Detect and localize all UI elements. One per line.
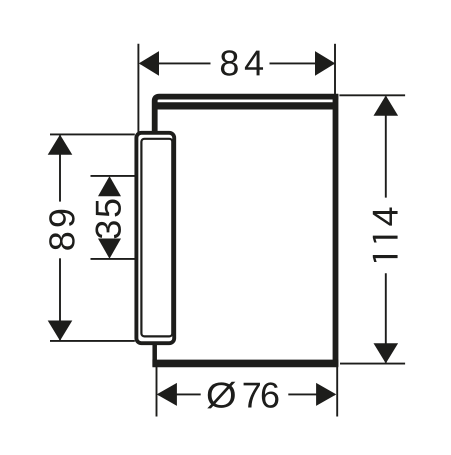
body bottom edge (152, 360, 338, 368)
dimension 89 label (49, 210, 74, 250)
dimension 114 label (373, 208, 398, 262)
wall plate (mounting plate) (136, 133, 174, 343)
dimension 89 extension line top (50, 133, 135, 135)
dimension D76 arrow right (316, 383, 336, 406)
dimension 114 extension line top (339, 94, 405, 96)
dimension D76 arrow left (157, 383, 177, 406)
dimension 35 arrow down (98, 239, 121, 259)
body right edge (333, 94, 339, 367)
dimension 35 extension line top (91, 175, 136, 177)
body outline (cup, side view) (152, 94, 338, 367)
dimension 84 arrow left (139, 51, 159, 76)
dimension 114 arrow down (374, 343, 399, 363)
dimension 89 arrow up (48, 135, 73, 155)
dimension 84 label (221, 50, 263, 75)
body top rim line (155, 97, 339, 133)
lip lower rim line (155, 102, 336, 109)
dimension 35 arrow up (98, 176, 121, 196)
dimension D76 extension line right (336, 366, 338, 417)
dimension 114 extension line bottom (340, 363, 405, 365)
body left edge (152, 99, 157, 366)
dimension D76 line right segment (288, 393, 335, 395)
dimension D76 line left segment (158, 393, 201, 395)
dimension 84 extension line left (137, 44, 139, 133)
dimension 89 line upper segment (59, 136, 61, 202)
dimension 114 line lower segment (385, 273, 387, 362)
dimension 89 arrow down (48, 321, 73, 341)
dimension 84 line right segment (270, 62, 335, 64)
dimension 89 line lower segment (59, 258, 61, 340)
dimension 114 arrow up (374, 96, 399, 116)
wall plate inner line (141, 139, 172, 337)
dimension 84 arrow right (315, 51, 335, 76)
dimension D76 label (207, 382, 278, 409)
dimension 89 extension line bottom (50, 340, 135, 342)
dimension 35 label (95, 200, 120, 239)
dimension 114 line upper segment (385, 97, 387, 198)
dimension 84 line left segment (140, 62, 211, 64)
dimension D76 extension line left (156, 366, 158, 417)
dimension 84 extension line right (334, 44, 336, 95)
dimension 35 extension line bottom (91, 258, 136, 260)
